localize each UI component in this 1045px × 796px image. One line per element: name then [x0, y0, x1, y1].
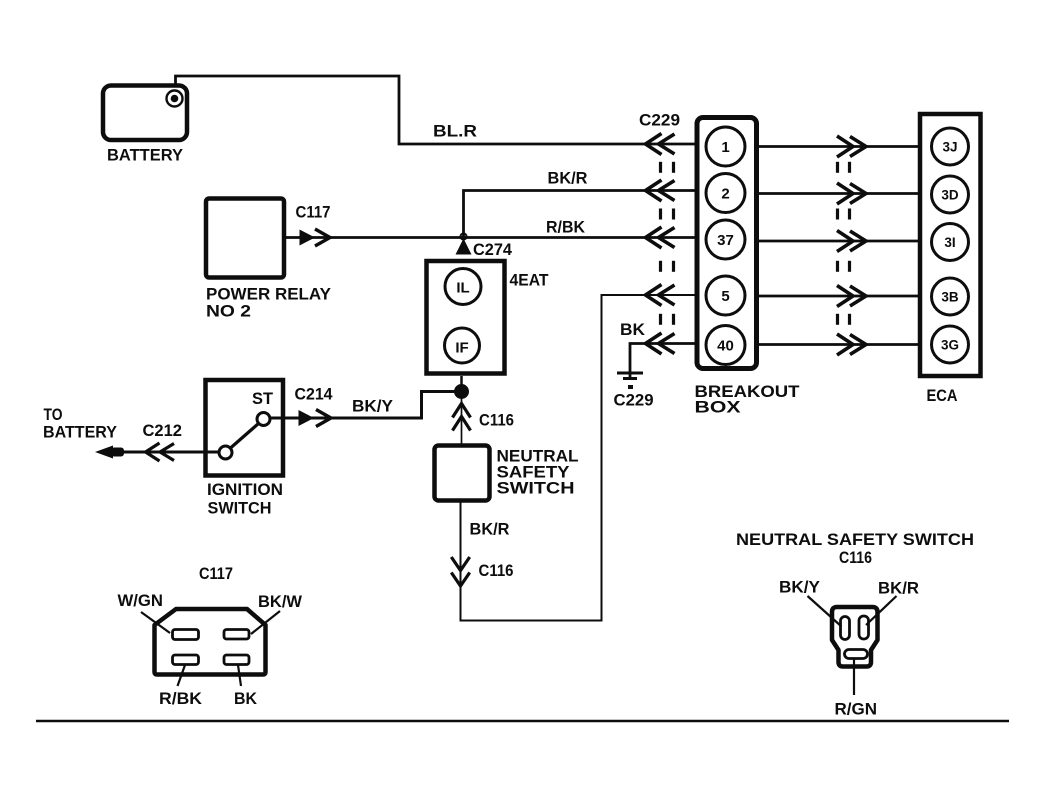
svg-text:BK/W: BK/W	[258, 592, 303, 611]
connector arrow row 3D (to ECA)	[837, 183, 866, 204]
connector arrow row 3J (to ECA)	[837, 136, 866, 157]
svg-text:BK/R: BK/R	[878, 579, 919, 598]
C117 pin slot BK	[224, 655, 249, 665]
svg-text:BK/Y: BK/Y	[352, 397, 394, 416]
wire breakout pin 37 to ECA pin 3I	[759, 240, 920, 243]
ECA label	[927, 386, 958, 405]
power relay box	[206, 199, 284, 278]
wire breakout pin 2 to ECA pin 3D	[759, 192, 920, 195]
svg-text:1: 1	[721, 139, 729, 156]
connector arrow row 3B (to ECA)	[837, 286, 866, 307]
svg-text:NO 2: NO 2	[206, 302, 251, 321]
svg-text:BK: BK	[620, 320, 646, 339]
svg-text:R/BK: R/BK	[546, 218, 586, 237]
wire breakout pin 1 to ECA pin 3J	[759, 145, 920, 148]
connector C116 arrows (up)	[453, 404, 471, 431]
neutral safety switch box	[435, 446, 490, 501]
bottom rule	[36, 720, 1009, 722]
ECA pin 3J	[932, 128, 969, 165]
svg-text:C229: C229	[614, 391, 654, 410]
svg-text:37: 37	[717, 232, 734, 249]
connector C212 label	[143, 421, 183, 440]
C117 leader W/GN	[141, 612, 170, 633]
C117 wire label W/GN	[118, 591, 164, 610]
svg-text:4EAT: 4EAT	[510, 271, 550, 290]
svg-text:BATTERY: BATTERY	[43, 423, 118, 442]
connector C214 label	[295, 385, 334, 404]
neutral safety switch label	[497, 447, 579, 498]
svg-text:3I: 3I	[944, 235, 955, 250]
C117 leader BK/W	[251, 611, 280, 634]
svg-text:C117: C117	[296, 203, 331, 222]
NSS C116 wire label R/GN	[835, 700, 878, 719]
svg-text:BOX: BOX	[695, 398, 742, 417]
ignition switch label	[207, 480, 283, 518]
4EAT pin IL	[445, 269, 481, 305]
breakout box	[697, 118, 757, 369]
battery feed arrowhead	[95, 446, 124, 459]
4EAT label	[510, 271, 550, 290]
svg-text:C116: C116	[839, 548, 872, 567]
svg-text:3G: 3G	[941, 338, 959, 353]
wire label BL.R	[433, 122, 477, 141]
connector C229 arrow row 1	[646, 134, 675, 155]
svg-text:C229: C229	[639, 111, 680, 130]
svg-text:BL.R: BL.R	[433, 122, 477, 141]
wire battery to breakout pin 1 (BL.R)	[176, 76, 698, 144]
svg-text:ECA: ECA	[927, 386, 958, 405]
connector arrow row 3I (to ECA)	[837, 231, 866, 252]
wire label R/BK	[546, 218, 586, 237]
svg-text:R/GN: R/GN	[835, 700, 878, 719]
wire label BK/Y	[352, 397, 394, 416]
C117 face label	[199, 564, 233, 583]
battery label	[107, 146, 184, 165]
breakout box pin 2	[706, 174, 745, 213]
wire breakout pin 40 to ECA pin 3G	[759, 343, 920, 346]
breakout box pin 40	[706, 326, 745, 365]
connector C229 arrow row 37	[646, 227, 675, 248]
C117 pin slot W/GN	[173, 630, 199, 640]
junction node (4EAT/ignition/NSS)	[454, 376, 469, 399]
connector C212 arrows	[146, 443, 175, 461]
battery B1	[103, 86, 187, 141]
svg-text:C116: C116	[479, 411, 514, 430]
svg-text:TO: TO	[44, 405, 63, 424]
breakout box pin 1	[706, 127, 745, 166]
connector C117 face body	[155, 609, 266, 675]
connector arrow row 3G (to ECA)	[837, 334, 866, 355]
ignition switch box	[206, 380, 284, 476]
C117 pin slot BK/W	[224, 630, 249, 640]
svg-text:C117: C117	[199, 564, 233, 583]
connector C116 label (upper)	[479, 411, 514, 430]
connector C116 arrows (down)	[451, 557, 469, 586]
NSS C116 pin slot BK/R	[859, 616, 869, 639]
power relay label	[206, 285, 332, 321]
NSS C116 wire label BK/R	[878, 579, 919, 598]
wire breakout pin 5 to ECA pin 3B	[759, 295, 920, 298]
wire label BK/R	[548, 169, 588, 188]
connector C229 arrow row 2	[646, 180, 675, 201]
svg-text:ST: ST	[252, 389, 274, 408]
connector C116 label (lower)	[479, 561, 514, 580]
ECA connector boundary dashes	[838, 162, 850, 325]
wire relay to breakout pin 37 (R/BK)	[285, 236, 697, 239]
connector C117 arrows (relay output)	[300, 229, 331, 246]
C117 leader R/BK	[178, 665, 186, 686]
4EAT pin IF	[445, 328, 480, 363]
svg-text:IF: IF	[455, 340, 468, 357]
wire junction to ignition switch ST (BK/Y)	[270, 392, 462, 419]
svg-text:C212: C212	[143, 421, 183, 440]
svg-text:NEUTRAL SAFETY SWITCH: NEUTRAL SAFETY SWITCH	[736, 530, 974, 549]
ECA pin 3G	[932, 326, 969, 363]
svg-text:3J: 3J	[942, 140, 957, 155]
breakout box label	[695, 382, 801, 417]
svg-text:C116: C116	[479, 561, 514, 580]
svg-text:40: 40	[717, 338, 734, 355]
connector C274 label	[473, 240, 513, 259]
ECA pin 3B	[932, 278, 969, 315]
svg-text:3D: 3D	[941, 188, 959, 203]
NSS C116 face body	[832, 607, 878, 667]
wire NSS to breakout pin 5 (BK/R)	[461, 295, 698, 621]
svg-text:SWITCH: SWITCH	[497, 479, 575, 498]
C117 wire label BK/W	[258, 592, 303, 611]
svg-text:R/BK: R/BK	[159, 689, 203, 708]
wire label BK	[620, 320, 646, 339]
wire ignition common to battery feed	[124, 451, 219, 454]
wire to breakout pin 2 (BK/R)	[464, 191, 698, 241]
connector C229 boundary dashes	[661, 162, 674, 325]
breakout box pin 37	[706, 220, 745, 259]
ignition ST terminal label	[252, 389, 274, 408]
breakout box pin 5	[706, 276, 745, 315]
connector C229 arrow row 40	[646, 333, 675, 354]
svg-text:BK: BK	[234, 689, 258, 708]
svg-text:BATTERY: BATTERY	[107, 146, 184, 165]
wire label BK/R (lower)	[470, 520, 510, 539]
C117 leader BK	[238, 665, 241, 686]
NSS C116 pin slot BK/Y	[841, 617, 850, 640]
wire breakout pin 40 to ground (BK)	[630, 344, 697, 379]
svg-text:W/GN: W/GN	[118, 591, 164, 610]
ignition switch contacts	[219, 413, 270, 460]
svg-text:SWITCH: SWITCH	[208, 499, 272, 518]
svg-text:BK/R: BK/R	[548, 169, 588, 188]
ECA box	[920, 114, 981, 376]
svg-text:IGNITION: IGNITION	[207, 480, 283, 499]
ECA pin 3I	[932, 224, 969, 261]
wire ST through box edge	[271, 417, 300, 420]
svg-text:C274: C274	[473, 240, 513, 259]
NSS C116 pin slot R/GN	[845, 650, 868, 659]
connector C229 label	[639, 111, 680, 130]
C117 wire label R/BK	[159, 689, 203, 708]
neutral safety switch connector title	[736, 530, 974, 567]
connector C117 label (relay)	[296, 203, 331, 222]
svg-text:BK/R: BK/R	[470, 520, 510, 539]
ECA pin 3D	[932, 176, 969, 213]
connector C229 arrow row 5	[646, 285, 675, 306]
connector C274 arrow	[456, 234, 472, 255]
C117 pin slot R/BK	[173, 655, 199, 665]
NSS C116 leader BK/Y	[808, 596, 842, 627]
svg-text:IL: IL	[456, 280, 469, 297]
NSS C116 leader R/GN	[853, 659, 855, 696]
4EAT module box	[427, 261, 505, 374]
svg-text:3B: 3B	[941, 290, 959, 305]
svg-text:C214: C214	[295, 385, 334, 404]
NSS C116 leader BK/R	[866, 596, 897, 625]
C117 wire label BK	[234, 689, 258, 708]
wire junction to neutral safety switch	[461, 398, 463, 445]
connector C214 arrows	[299, 410, 332, 427]
TO BATTERY label	[43, 405, 118, 442]
svg-text:5: 5	[721, 288, 729, 305]
NSS C116 wire label BK/Y	[779, 578, 821, 597]
connector C229 label (ground)	[614, 391, 654, 410]
ground symbol	[617, 373, 643, 389]
svg-text:BK/Y: BK/Y	[779, 578, 821, 597]
svg-text:2: 2	[721, 186, 729, 203]
